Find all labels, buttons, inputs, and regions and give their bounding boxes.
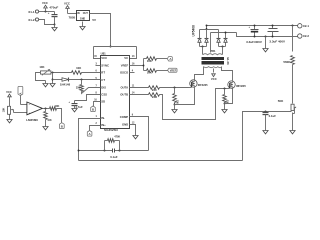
wire pot right to RT resistor	[51, 72, 72, 74]
junction 560K tap	[292, 25, 294, 27]
wire D3-D4 anodes to secondary right	[219, 46, 226, 53]
svg-text:IRF3205: IRF3205	[198, 83, 208, 87]
diode D4 UF5408	[224, 33, 228, 47]
svg-text:1N4148: 1N4148	[60, 83, 71, 87]
svg-text:+: +	[48, 11, 50, 15]
resistor R13 560K	[283, 26, 294, 104]
ground (input)	[52, 25, 57, 31]
wire V+ rail	[207, 25, 298, 27]
ground (CSS)	[72, 106, 77, 112]
junction bottom right	[119, 150, 121, 152]
connector X1-2	[28, 18, 38, 22]
ground (pot left)	[43, 81, 48, 87]
transformer core	[202, 57, 225, 65]
wire bottom net	[79, 160, 243, 162]
svg-text:CT: CT	[101, 78, 105, 82]
transformer TR1 secondary winding	[203, 53, 223, 55]
junction pot right	[52, 72, 54, 74]
wire X1-2 to ground node	[39, 20, 55, 25]
power VCC arrow (input)	[42, 1, 48, 11]
resistor R9 22R	[130, 86, 160, 92]
net flag VREF	[168, 68, 177, 72]
svg-text:10K: 10K	[39, 65, 44, 69]
wire R4 to DIS pin	[82, 88, 101, 94]
svg-text:470uF: 470uF	[49, 6, 58, 10]
svg-text:TR1: TR1	[210, 49, 216, 53]
wire RC net	[78, 150, 149, 152]
ground (U1)	[133, 136, 138, 139]
pin stub OSCO	[130, 72, 135, 74]
svg-text:VCC: VCC	[6, 90, 12, 94]
junction C5 top	[254, 25, 256, 27]
svg-text:50K: 50K	[278, 99, 284, 103]
svg-text:OUT: OUT	[83, 12, 89, 15]
wire bridge rail (D1-D3)	[200, 29, 219, 31]
svg-text:VC: VC	[124, 56, 128, 60]
net flag A	[167, 57, 172, 61]
net flag IN+	[87, 131, 92, 137]
wire VCC to 7805 IN	[68, 13, 77, 15]
wire gate 2 into Q2	[227, 88, 230, 90]
wire 5V to VCC pin	[94, 47, 101, 59]
svg-text:X2-1: X2-1	[303, 24, 309, 28]
capacitor C1 470uF	[48, 6, 59, 25]
wire CSS pin	[75, 95, 101, 101]
wire Q2 source	[225, 89, 233, 104]
capacitor C2 4.7uF	[68, 100, 83, 109]
transformer TR1 primary winding	[203, 67, 222, 73]
svg-text:10K: 10K	[47, 120, 52, 122]
wire Q1 drain	[195, 68, 204, 80]
svg-text:VCC: VCC	[64, 2, 70, 6]
op-amp U2 LM358N	[26, 102, 42, 122]
wire VREF pin	[130, 59, 144, 71]
svg-text:IN-: IN-	[101, 116, 105, 120]
wire X1-1 to VCC node	[39, 11, 55, 13]
ground (gate 2)	[222, 104, 227, 113]
wire OUTA to gate	[160, 87, 189, 89]
svg-text:220: 220	[152, 88, 157, 92]
capacitor C4 0.1uF	[110, 149, 118, 159]
resistor R12 10K (gate 2 pulldown)	[223, 89, 228, 105]
svg-text:5V: 5V	[92, 18, 96, 22]
svg-text:DIS: DIS	[101, 85, 106, 89]
svg-text:OUTA: OUTA	[120, 85, 128, 89]
svg-text:VCC: VCC	[42, 1, 48, 5]
potentiometer P3 50K	[278, 99, 296, 113]
svg-text:IN+: IN+	[101, 123, 106, 127]
junction V+ start	[206, 25, 208, 27]
svg-text:IN: IN	[77, 12, 80, 15]
svg-text:10K: 10K	[176, 100, 178, 105]
wire R3 to RT pin	[82, 72, 101, 74]
svg-text:VCC: VCC	[101, 56, 107, 60]
wire SD pin	[94, 102, 101, 107]
svg-text:SD: SD	[101, 100, 105, 104]
ground (pot 50K)	[290, 113, 295, 134]
label EI-33	[226, 57, 230, 65]
svg-text:10K: 10K	[3, 108, 6, 113]
wire diode to CT pin	[69, 79, 101, 81]
resistor R5 10K	[44, 109, 52, 127]
junction op-amp output	[45, 108, 47, 110]
junction C5 bottom	[254, 36, 256, 38]
ground (7805)	[80, 22, 85, 30]
wire pot P2 wiper to op-amp +	[14, 112, 27, 114]
svg-text:3.3uF 400V: 3.3uF 400V	[269, 40, 285, 44]
wire 5V rail	[94, 46, 137, 48]
svg-text:470K: 470K	[114, 136, 120, 139]
junction at C1 bottom	[54, 24, 56, 26]
resistor R11 10K (gate 1 pulldown)	[173, 88, 178, 105]
svg-text:VREF: VREF	[170, 69, 177, 72]
wire IN+ pin	[90, 126, 101, 131]
svg-text:U$1: U$1	[101, 52, 107, 56]
svg-text:0.1uF: 0.1uF	[110, 155, 118, 159]
svg-text:VREF: VREF	[121, 63, 129, 67]
pin stub SYNC	[96, 65, 101, 67]
diode D5 1N4148	[60, 78, 71, 87]
junction gate 1	[174, 87, 176, 89]
svg-text:OUTB: OUTB	[120, 93, 128, 97]
junction source 1	[174, 104, 176, 106]
ground (pot right)	[50, 84, 55, 87]
svg-text:X1-2: X1-2	[28, 18, 35, 22]
wire bridge rail (center)	[211, 33, 237, 53]
wire gate 1 into Q1	[189, 87, 192, 89]
svg-text:X2-2: X2-2	[303, 34, 309, 38]
svg-text:22R: 22R	[152, 95, 157, 99]
resistor R2 10K	[144, 69, 168, 75]
junction bottom left	[104, 150, 106, 152]
net flag op-amp inverting	[18, 86, 23, 95]
net flag SD	[91, 106, 96, 112]
connector X2-2	[298, 34, 310, 38]
svg-text:UF5408: UF5408	[192, 25, 196, 37]
potentiometer P1 10K	[41, 69, 51, 75]
ground (HV mid)	[263, 36, 268, 52]
resistor R3 10K	[72, 66, 82, 74]
svg-text:10K: 10K	[147, 59, 152, 63]
svg-text:10K: 10K	[55, 104, 60, 108]
wire IN- pin	[79, 119, 101, 161]
junction VREF	[143, 65, 145, 67]
svg-text:IRF3205: IRF3205	[236, 84, 246, 88]
resistor R10 22R	[130, 93, 160, 100]
wire 5V to VC pin	[130, 47, 137, 59]
diode D2 UF5408	[205, 26, 209, 47]
svg-text:GND: GND	[122, 122, 128, 126]
label UF5408	[192, 25, 196, 37]
wire COMP pin	[130, 117, 149, 151]
svg-text:VCC: VCC	[211, 77, 217, 81]
svg-text:10K: 10K	[76, 66, 81, 70]
svg-text:X1-1: X1-1	[28, 10, 35, 14]
wire pot left to ground	[36, 73, 46, 81]
ground (feedback cap)	[263, 115, 268, 134]
resistor R4 330	[76, 80, 83, 92]
junction D2 crossing	[206, 28, 208, 30]
svg-text:SG3525N: SG3525N	[104, 128, 118, 132]
diode D1 UF5408	[198, 30, 202, 47]
resistor R7 10K	[50, 104, 62, 123]
junction C6 top	[272, 25, 274, 27]
wire GND pin	[130, 125, 136, 136]
diode D3 UF5408	[217, 30, 221, 47]
ground (gate 1)	[172, 105, 177, 113]
svg-text:A: A	[19, 93, 23, 95]
svg-text:330: 330	[76, 86, 81, 90]
power VCC (pot P2)	[6, 90, 12, 104]
wire D1-D2 anodes to secondary left	[200, 46, 207, 53]
pin numbers U1 left	[94, 56, 97, 125]
regulator IC2 7805	[69, 11, 90, 21]
capacitor C6 3.3uF 400V	[268, 26, 286, 44]
label 5V	[92, 18, 96, 22]
svg-text:SYNC: SYNC	[101, 63, 109, 67]
junction gate 2	[224, 88, 226, 90]
wire Q2 drain	[222, 68, 233, 81]
transistor Q1 IRF3205	[190, 80, 208, 88]
capacitor C5 3.3uF/400V	[246, 26, 262, 44]
transistor Q2 IRF3205	[228, 81, 247, 89]
power VCC arrow (7805 in)	[64, 2, 70, 14]
svg-text:0.1uF: 0.1uF	[269, 114, 277, 118]
pin numbers U1 right	[132, 56, 135, 124]
wire OUTB to gate 2	[160, 89, 227, 120]
junction at VCC node	[45, 11, 47, 13]
resistor R1 10K	[144, 57, 168, 63]
svg-text:7805: 7805	[69, 16, 76, 20]
junction CT	[81, 79, 83, 81]
wire V- rail	[237, 33, 298, 37]
svg-text:GND: GND	[80, 18, 86, 21]
wire junction to diode	[53, 79, 63, 81]
junction feedback cap	[265, 111, 267, 113]
svg-text:LM358N: LM358N	[26, 118, 38, 122]
svg-text:560K: 560K	[283, 60, 291, 64]
wire 7805 OUT to 5V rail	[90, 14, 111, 47]
connector X1-1	[28, 10, 38, 14]
wire flag to op-amp -	[21, 96, 27, 105]
connector X2-1	[298, 24, 310, 28]
svg-text:RT: RT	[101, 71, 105, 75]
label 10K (pot P1)	[39, 65, 44, 69]
junction diode anode	[52, 79, 54, 81]
wire Q1 source	[175, 88, 195, 105]
svg-text:COMP: COMP	[120, 115, 129, 119]
ground (pot P2)	[7, 120, 12, 123]
wire junction down	[52, 73, 54, 84]
potentiometer P2 10K	[3, 104, 14, 120]
junction source 2	[224, 103, 226, 105]
wire op-amp output	[43, 108, 50, 110]
power VCC (center tap)	[211, 74, 217, 81]
label TR1	[210, 49, 216, 53]
svg-text:3.3uF/400V: 3.3uF/400V	[246, 40, 262, 44]
svg-text:10K: 10K	[147, 70, 152, 74]
svg-text:OSCO: OSCO	[120, 71, 129, 75]
ground (R5)	[43, 127, 48, 130]
svg-text:CSS: CSS	[101, 93, 107, 97]
IC U1 SG3525N PWM controller	[101, 52, 130, 132]
junction C6 bottom	[272, 36, 274, 38]
junction 5V rail	[110, 46, 112, 48]
net flag op-amp out	[59, 123, 64, 129]
wire feedback	[243, 112, 292, 161]
resistor R6 470K	[105, 136, 121, 151]
svg-text:EI-33: EI-33	[226, 57, 230, 65]
junction D4	[225, 32, 227, 34]
capacitor C7 0.1uF	[263, 112, 277, 118]
